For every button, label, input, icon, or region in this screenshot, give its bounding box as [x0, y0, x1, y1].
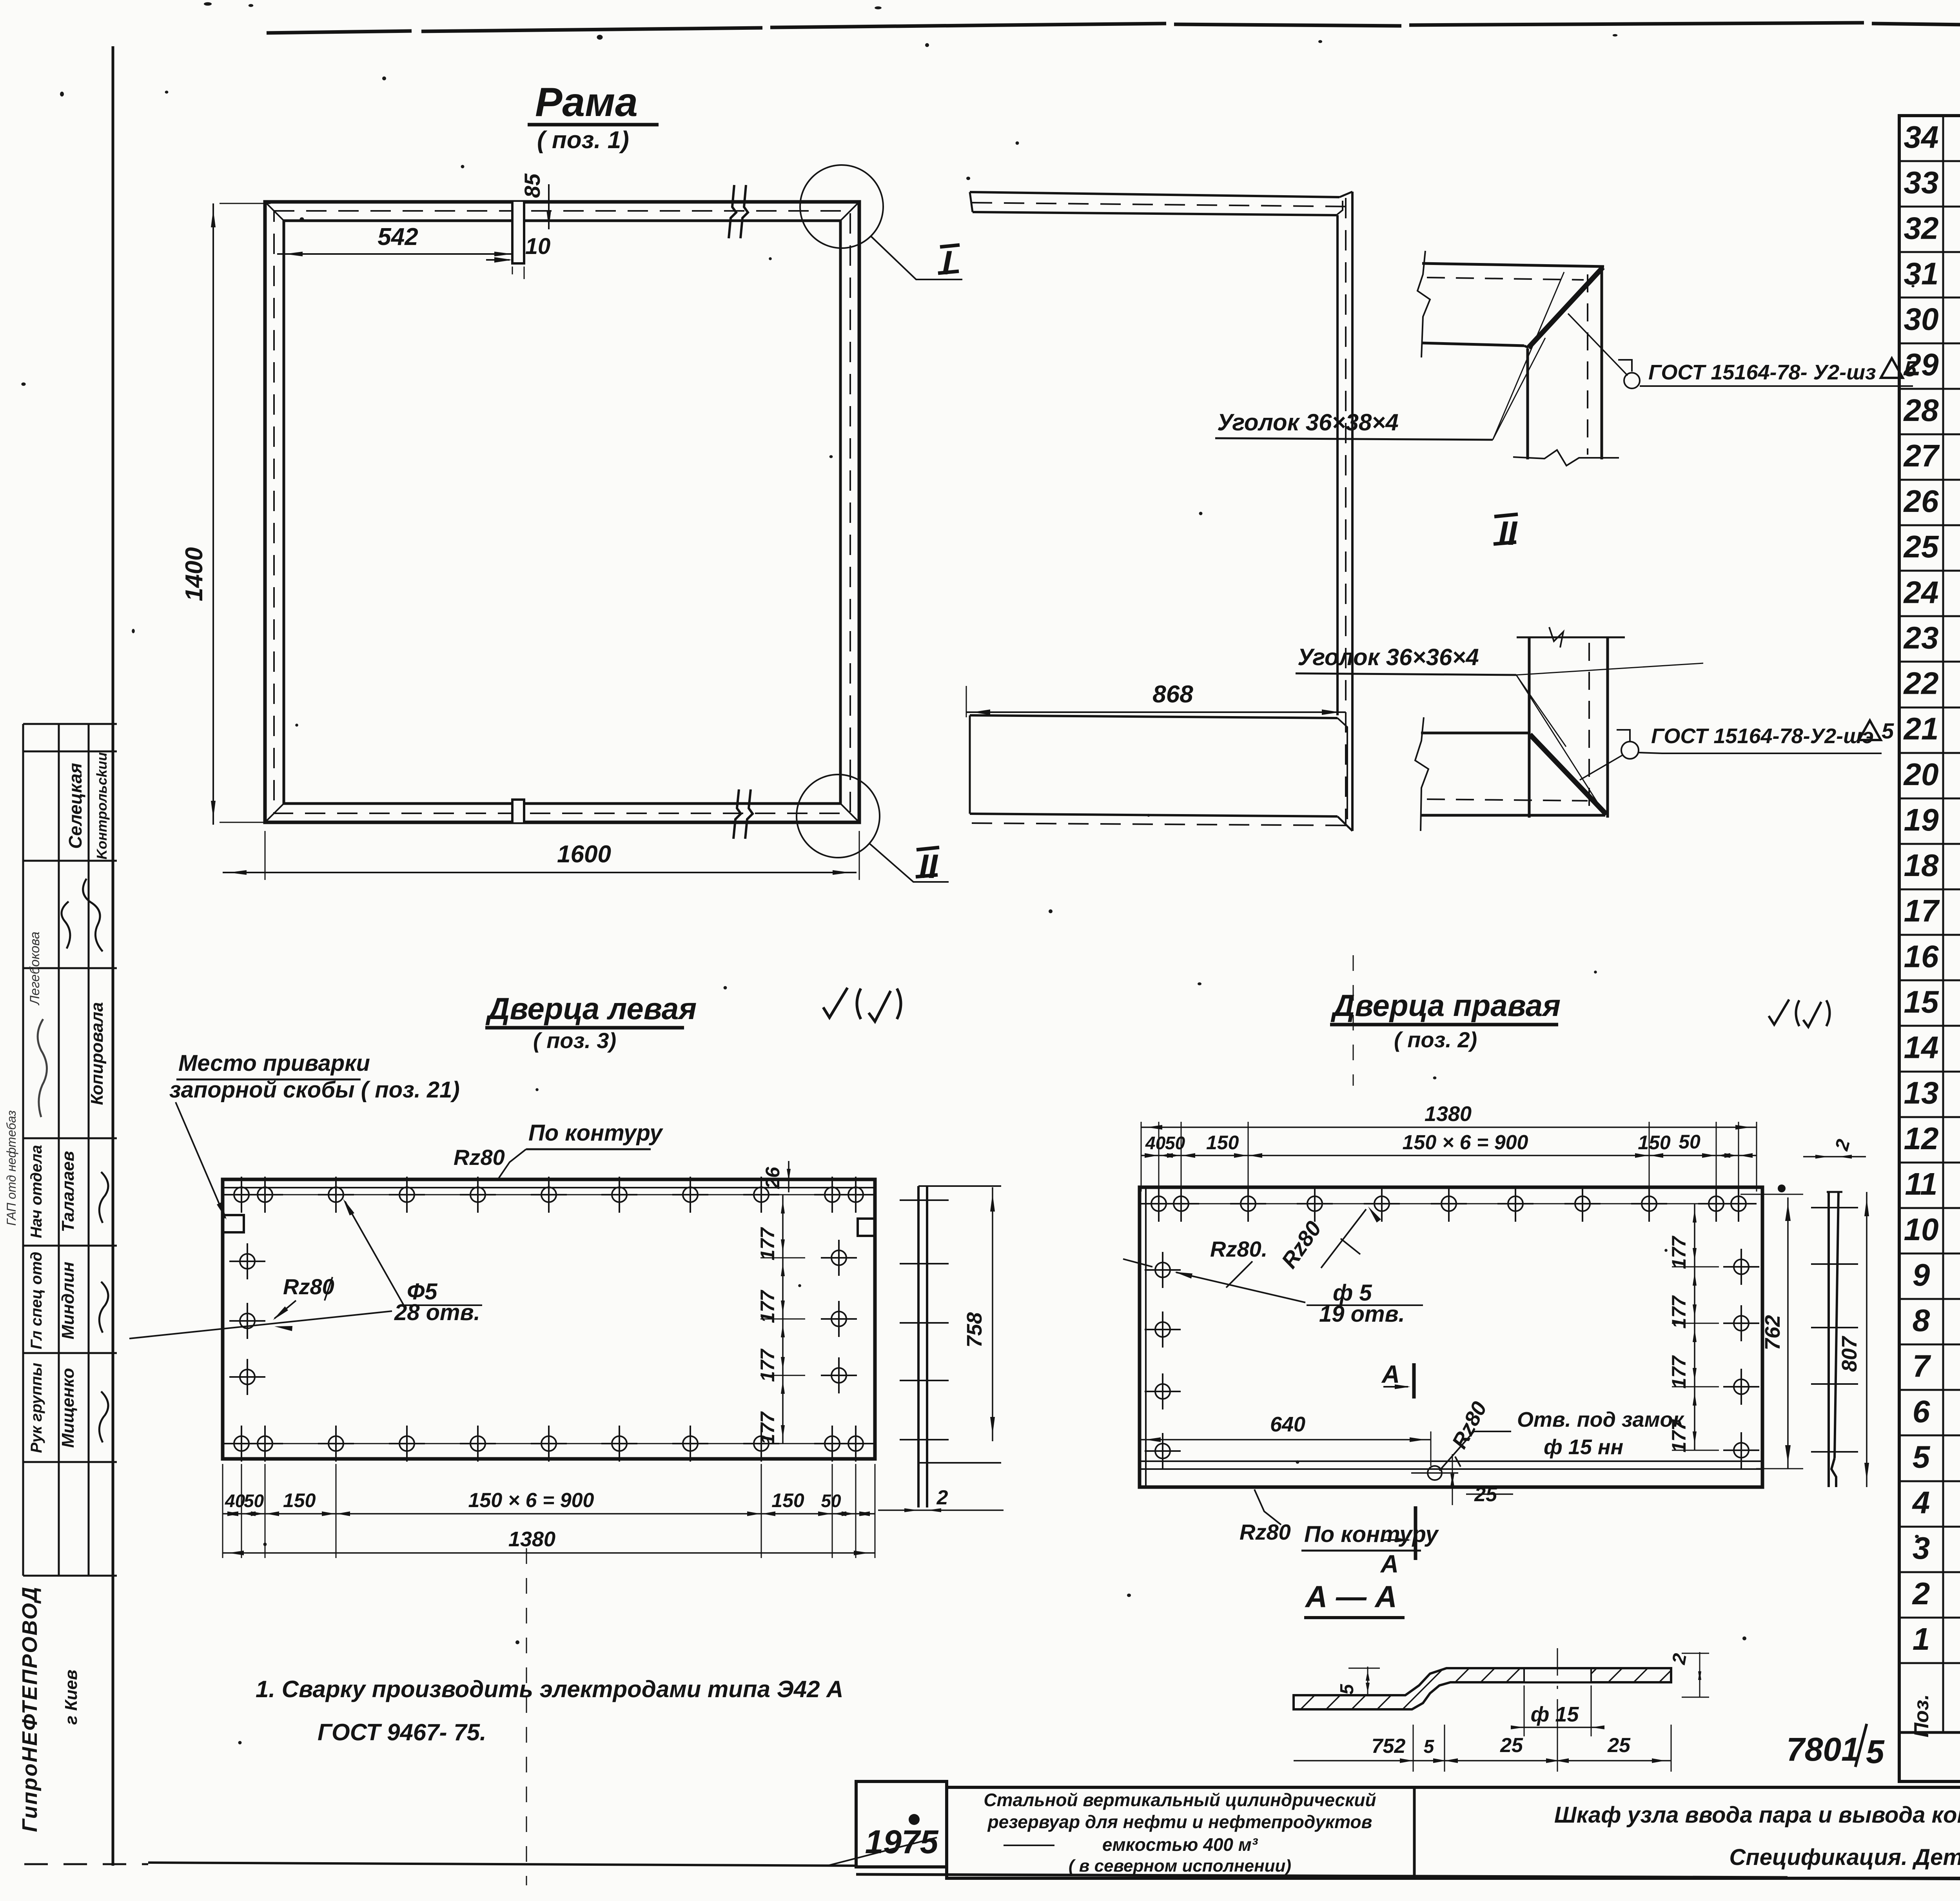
section centreline of hole: [1557, 1648, 1558, 1766]
svg-text:177: 177: [757, 1348, 779, 1382]
svg-text:5: 5: [1882, 718, 1894, 743]
svg-text:15: 15: [1904, 984, 1939, 1019]
svg-text:640: 640: [1270, 1413, 1305, 1436]
svg-text:Рама: Рама: [535, 80, 638, 125]
svg-text:Rz80: Rz80: [1240, 1520, 1291, 1544]
section cut mark A (upper): [1412, 1363, 1416, 1399]
svg-text:177: 177: [1668, 1419, 1690, 1453]
svg-text:20: 20: [1903, 757, 1939, 792]
svg-text:3: 3: [1913, 1531, 1930, 1565]
svg-text:5: 5: [1424, 1736, 1435, 1757]
svg-text:ф 15: ф 15: [1531, 1703, 1579, 1726]
frame side view: bottom flange: [970, 715, 1338, 718]
svg-text:11: 11: [1905, 1166, 1937, 1201]
svg-text:21: 21: [1903, 711, 1939, 746]
svg-text:752: 752: [1372, 1735, 1406, 1758]
svg-text:28: 28: [1903, 393, 1939, 428]
dim 177 column (left door): [782, 1195, 784, 1444]
left door bottom dimension row: [223, 1513, 875, 1515]
svg-text:1: 1: [1913, 1622, 1930, 1656]
leader to detail I label: [871, 236, 962, 279]
svg-text:2: 2: [936, 1486, 948, 1509]
svg-text:30: 30: [1904, 302, 1939, 337]
svg-text:Селецкая: Селецкая: [65, 763, 85, 849]
svg-text:28 отв.: 28 отв.: [394, 1300, 480, 1325]
svg-text:7: 7: [1913, 1348, 1931, 1383]
svg-text:25: 25: [1903, 529, 1939, 564]
svg-text:Копировала: Копировала: [87, 1002, 107, 1105]
svg-text:6: 6: [1913, 1394, 1930, 1429]
svg-text:807: 807: [1838, 1335, 1861, 1372]
left door side strip: [917, 1186, 920, 1507]
dim 1600: [223, 872, 857, 873]
svg-text:150: 150: [771, 1489, 804, 1511]
detail circle II (bottom right corner): [797, 775, 880, 858]
svg-text:Мищенко: Мищенко: [58, 1368, 78, 1448]
svg-text:1600: 1600: [557, 841, 611, 868]
svg-text:27: 27: [1903, 438, 1940, 473]
frame side view: right wall: [1351, 192, 1354, 831]
svg-text:150: 150: [1638, 1132, 1671, 1154]
svg-text:г Киев: г Киев: [62, 1670, 81, 1725]
svg-text:II: II: [1498, 515, 1518, 552]
svg-text:ГОСТ 15164-78-У2-шэ: ГОСТ 15164-78-У2-шэ: [1651, 724, 1874, 748]
svg-text:40: 40: [1145, 1133, 1166, 1153]
svg-text:Рук группы: Рук группы: [28, 1363, 45, 1453]
dim 758: [992, 1187, 993, 1441]
svg-text:Шкаф узла ввода пара и вы: Шкаф узла ввода пара и вывода конденсата…: [1554, 1802, 1960, 1828]
svg-text:23: 23: [1903, 620, 1939, 655]
svg-text:I: I: [942, 244, 952, 282]
page bottom border: [24, 1863, 148, 1865]
svg-text:Миндлин: Миндлин: [58, 1262, 78, 1339]
section cut mark A (lower): [1414, 1506, 1417, 1560]
svg-text:177: 177: [757, 1290, 779, 1323]
right door side strip: [1828, 1192, 1830, 1487]
svg-text:Отв. под замок: Отв. под замок: [1517, 1408, 1685, 1431]
note ГОСТ 15164-78-У2-шз (detail I): [1640, 385, 1913, 387]
svg-text:( поз. 3): ( поз. 3): [533, 1028, 616, 1053]
dim 807: [1866, 1192, 1867, 1487]
svg-text:( поз. 2): ( поз. 2): [1394, 1027, 1477, 1052]
detail I view: [1417, 251, 1619, 466]
svg-text:ГАП отд нефтебаз: ГАП отд нефтебаз: [4, 1110, 18, 1226]
svg-text:1380: 1380: [1425, 1102, 1472, 1126]
svg-text:50: 50: [1165, 1133, 1185, 1153]
frame outer contour: [265, 202, 859, 822]
svg-text:4: 4: [1912, 1485, 1930, 1520]
svg-text:177: 177: [1668, 1355, 1690, 1389]
svg-text:150: 150: [283, 1489, 316, 1511]
year box 1975: [856, 1781, 947, 1867]
svg-text:Уголок 36×38×4: Уголок 36×38×4: [1217, 409, 1399, 435]
svg-text:ГипроНЕФТЕПРОВОД: ГипроНЕФТЕПРОВОД: [18, 1586, 42, 1832]
svg-text:40: 40: [225, 1491, 245, 1511]
frame bottom notch: [512, 800, 524, 822]
leader to detail II label: [869, 843, 949, 882]
dim 1380 (right door): [1141, 1126, 1757, 1128]
svg-text:50: 50: [821, 1491, 841, 1511]
svg-text:150: 150: [1206, 1132, 1239, 1154]
dim 1400: [212, 203, 214, 825]
svg-text:II: II: [919, 848, 938, 885]
svg-text:31: 31: [1904, 256, 1939, 291]
svg-text:Место приварки: Место приварки: [178, 1050, 370, 1076]
dim 1380 (left door): [223, 1552, 875, 1554]
dim 5 (vertical rise): [1367, 1667, 1368, 1695]
dim 85: [548, 184, 550, 229]
svg-text:По контуру: По контуру: [1304, 1522, 1439, 1547]
svg-text:Дверца правая: Дверца правая: [1330, 988, 1561, 1023]
svg-text:17: 17: [1904, 893, 1940, 928]
svg-text:Талалаев: Талалаев: [58, 1151, 78, 1232]
svg-text:150 × 6 = 900: 150 × 6 = 900: [468, 1489, 594, 1512]
dim 177 column (right door): [1694, 1204, 1695, 1450]
weld symbol detail I: [1624, 373, 1640, 388]
title block frame: [947, 1787, 1960, 1878]
sidebar signatures (squiggles): [38, 878, 109, 1442]
svg-text:Rz80: Rz80: [454, 1145, 505, 1170]
svg-text:50: 50: [1679, 1131, 1700, 1153]
page top border (wavy scanned line): [267, 23, 1960, 37]
svg-text:ГОСТ 9467- 75.: ГОСТ 9467- 75.: [318, 1719, 486, 1745]
lock hole: [1428, 1466, 1442, 1480]
svg-text:запорной скобы ( поз. 21): запорной скобы ( поз. 21): [169, 1077, 460, 1103]
frame break marks bottom: [733, 789, 741, 839]
right door plate contour: [1140, 1187, 1762, 1487]
svg-text:24: 24: [1903, 575, 1939, 609]
svg-text:1. Сварку производить электр: 1. Сварку производить электродами типа Э…: [256, 1676, 843, 1702]
svg-text:32: 32: [1904, 210, 1939, 245]
svg-text:10: 10: [1904, 1212, 1939, 1247]
svg-text:Легебокова: Легебокова: [27, 932, 42, 1005]
svg-text:177: 177: [757, 1227, 779, 1261]
svg-text:177: 177: [1668, 1295, 1690, 1329]
svg-text:7801: 7801: [1786, 1731, 1860, 1768]
frame break marks top: [729, 185, 736, 238]
svg-text:33: 33: [1904, 165, 1939, 200]
svg-text:Koнтpoльckuu: Koнтpoльckuu: [94, 752, 110, 860]
svg-text:542: 542: [377, 223, 418, 250]
svg-text:ф 15 нн: ф 15 нн: [1544, 1435, 1623, 1459]
svg-text:26: 26: [762, 1166, 784, 1189]
svg-text:( в северном исполнении): ( в северном исполнении): [1069, 1856, 1291, 1876]
svg-text:Поз.: Поз.: [1910, 1694, 1933, 1737]
svg-text:762: 762: [1761, 1315, 1784, 1350]
fold mark lines: [526, 1548, 527, 1885]
sidebar table grid: [23, 724, 117, 1576]
svg-text:18: 18: [1904, 848, 1939, 883]
svg-text:19: 19: [1904, 802, 1939, 837]
svg-text:А — А: А — А: [1305, 1579, 1397, 1614]
note ГОСТ 15164-78-У2-шэ (detail II): [1639, 753, 1882, 753]
section bottom dims 752 5 25 25: [1294, 1760, 1671, 1761]
svg-text:29: 29: [1903, 347, 1939, 382]
svg-text:5: 5: [1913, 1440, 1931, 1475]
svg-text:( поз. 1): ( поз. 1): [537, 127, 629, 154]
svg-text:50: 50: [244, 1491, 264, 1511]
svg-text:1400: 1400: [181, 547, 208, 601]
svg-text:25: 25: [1607, 1734, 1631, 1757]
left door hinge notches: [223, 1215, 244, 1232]
svg-text:22: 22: [1903, 666, 1939, 701]
svg-text:резервуар для нефти и нефтепро: резервуар для нефти и нефтепродуктов: [987, 1812, 1372, 1832]
page left border: [112, 46, 114, 1866]
leader to left column hole: [1176, 1272, 1305, 1302]
specification table grid: [1899, 116, 1960, 1781]
svg-text:150 × 6 = 900: 150 × 6 = 900: [1403, 1131, 1528, 1154]
svg-text:34: 34: [1904, 120, 1939, 154]
svg-text:868: 868: [1152, 681, 1193, 708]
dim 25 (lock hole): [1452, 1454, 1453, 1505]
frame inner contour: [284, 221, 840, 804]
svg-text:По контуру: По контуру: [528, 1120, 663, 1146]
svg-text:14: 14: [1904, 1030, 1939, 1065]
detail II view: [1415, 627, 1625, 831]
svg-text:Rz80.: Rz80.: [1210, 1237, 1267, 1261]
svg-text:10: 10: [525, 234, 551, 259]
svg-text:758: 758: [963, 1312, 986, 1348]
weld symbol detail II: [1621, 742, 1639, 759]
svg-text:1380: 1380: [508, 1527, 555, 1551]
svg-text:177: 177: [757, 1411, 779, 1445]
svg-text:Гл спец отд: Гл спец отд: [28, 1252, 45, 1349]
right door hole rows: [1151, 1203, 1747, 1204]
svg-text:ГОСТ 15164-78- У2-шз: ГОСТ 15164-78- У2-шз: [1648, 361, 1876, 384]
dim 868: [966, 711, 1346, 713]
svg-text:емкостью 400 м³: емкостью 400 м³: [1102, 1834, 1258, 1855]
svg-text:А: А: [1381, 1360, 1400, 1388]
left door plate contour: [223, 1179, 875, 1459]
surface finish mark right door: [1769, 999, 1830, 1027]
svg-text:8: 8: [1913, 1303, 1930, 1338]
svg-text:177: 177: [1668, 1235, 1690, 1269]
svg-text:Нач отдела: Нач отдела: [28, 1145, 45, 1238]
svg-text:А: А: [1380, 1550, 1399, 1578]
section A-A profile: [1294, 1668, 1671, 1709]
svg-text:16: 16: [1904, 939, 1939, 974]
surface finish mark left door: [823, 988, 901, 1021]
frame top notch: [512, 202, 524, 263]
frame dashed centreline: [274, 211, 850, 813]
frame side view: top flange: [970, 192, 1339, 197]
svg-text:9: 9: [1913, 1257, 1930, 1292]
svg-text:12: 12: [1904, 1121, 1939, 1156]
svg-text:1975: 1975: [865, 1823, 939, 1860]
dim 640: [1140, 1439, 1431, 1440]
left door hole rows: [234, 1194, 863, 1195]
svg-text:Дверца левая: Дверца левая: [485, 991, 697, 1026]
right door top dimension row: [1141, 1155, 1757, 1156]
detail circle I (top right corner): [800, 165, 883, 248]
dim 762 (right door): [1787, 1197, 1789, 1469]
svg-text:Спецификация. Детали.: Спецификация. Детали.: [1729, 1845, 1960, 1870]
dim 542: [277, 253, 512, 255]
svg-text:25: 25: [1500, 1734, 1523, 1757]
svg-text:2: 2: [1912, 1576, 1930, 1611]
svg-text:13: 13: [1904, 1076, 1939, 1110]
svg-text:5: 5: [1866, 1733, 1885, 1770]
svg-text:Стальной вертикальный цилинд: Стальной вертикальный цилиндрический: [984, 1790, 1376, 1810]
svg-text:85: 85: [520, 173, 544, 198]
svg-text:Уголок 36×36×4: Уголок 36×36×4: [1298, 644, 1479, 670]
frame inner corner hooks: [284, 221, 294, 231]
svg-text:5: 5: [1337, 1683, 1357, 1694]
frame corner mitres: [265, 202, 284, 221]
svg-text:26: 26: [1903, 484, 1939, 519]
